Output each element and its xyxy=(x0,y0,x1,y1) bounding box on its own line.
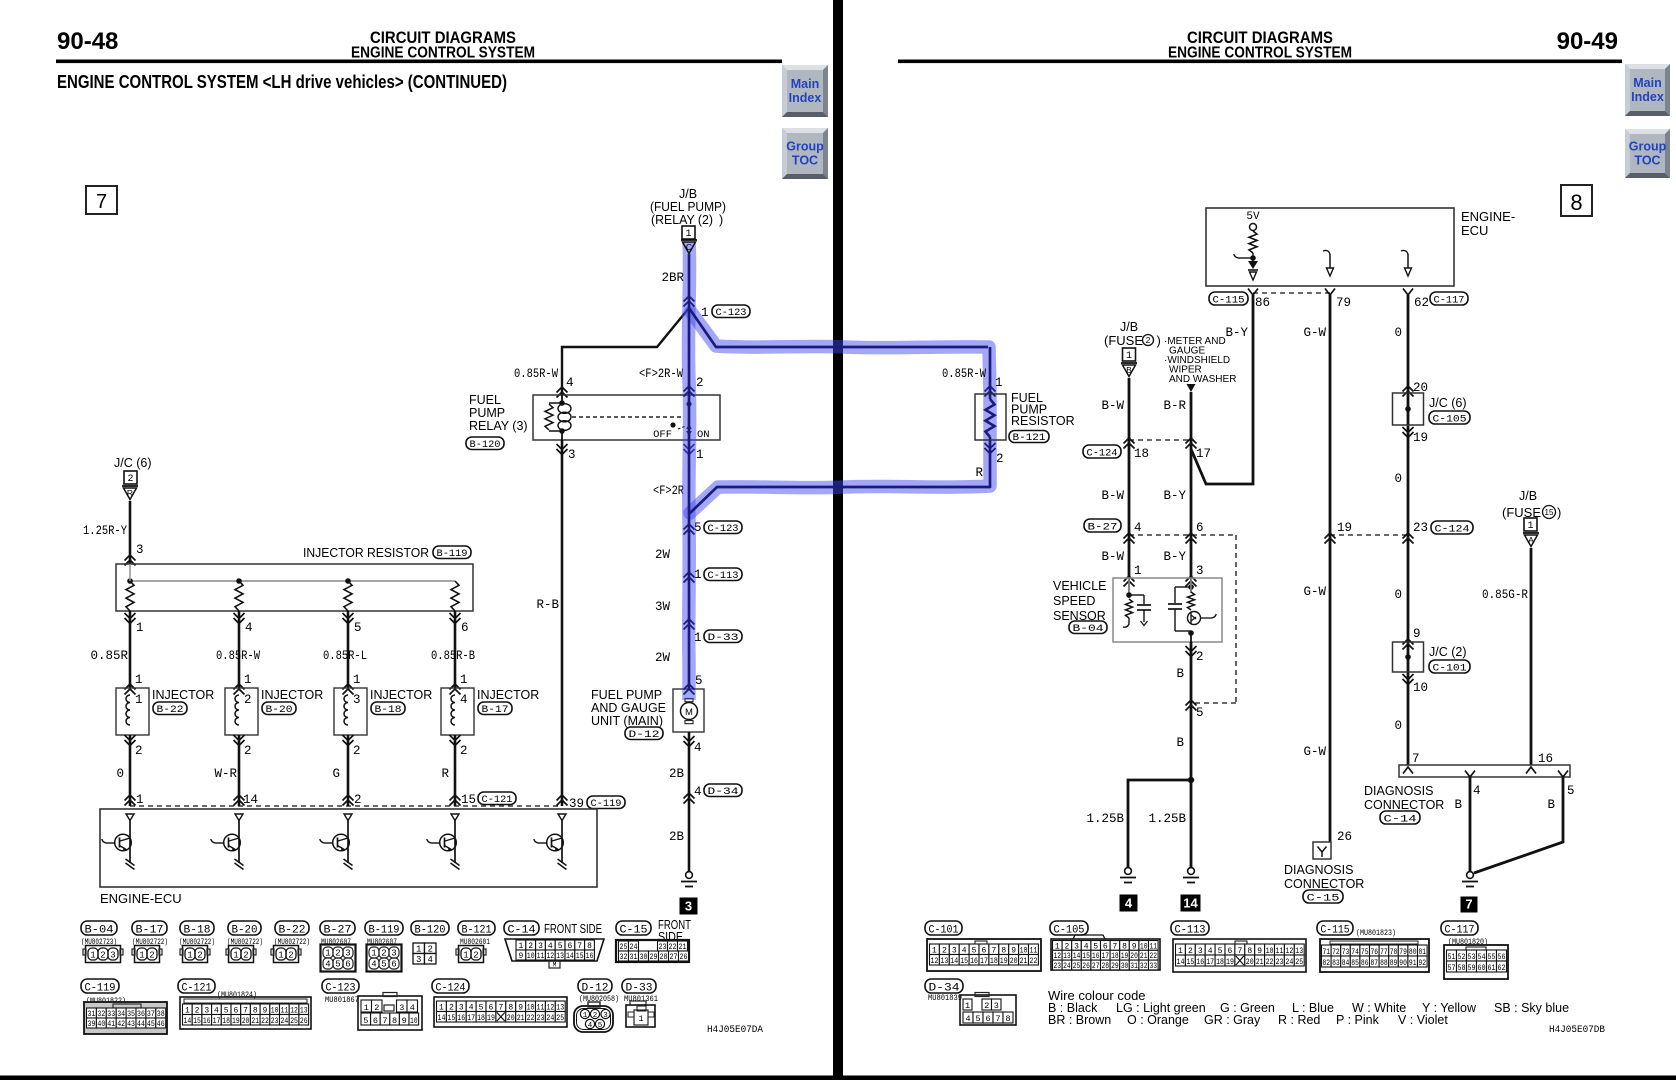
svg-text:15: 15 xyxy=(447,1014,455,1023)
svg-text:RESISTOR: RESISTOR xyxy=(1011,414,1075,428)
svg-text:0.85R-L: 0.85R-L xyxy=(323,649,367,663)
svg-text:C-124: C-124 xyxy=(1435,524,1470,536)
svg-text:1: 1 xyxy=(136,621,144,635)
svg-text:4: 4 xyxy=(566,376,574,390)
svg-text:23: 23 xyxy=(1054,962,1062,971)
svg-text:MU801839: MU801839 xyxy=(928,993,962,1003)
svg-text:B-Y: B-Y xyxy=(1225,326,1248,340)
svg-text:B-W: B-W xyxy=(1101,399,1124,413)
svg-text:(FUSE: (FUSE xyxy=(1104,333,1143,348)
svg-text:Group: Group xyxy=(786,140,824,154)
svg-text:17: 17 xyxy=(1196,447,1211,461)
svg-text:ON: ON xyxy=(697,429,710,441)
svg-text:TOC: TOC xyxy=(792,154,818,168)
svg-text:C-15: C-15 xyxy=(620,925,648,937)
svg-text:24: 24 xyxy=(546,1014,554,1023)
svg-text:1: 1 xyxy=(139,951,144,961)
svg-text:B-119: B-119 xyxy=(369,925,400,937)
svg-text:5: 5 xyxy=(354,621,362,635)
svg-text:59: 59 xyxy=(1468,964,1476,973)
svg-text:14: 14 xyxy=(1177,958,1185,967)
svg-text:18: 18 xyxy=(477,1014,485,1023)
svg-text:7: 7 xyxy=(995,1014,1000,1024)
svg-text:5: 5 xyxy=(975,1014,980,1024)
svg-text:1.25B: 1.25B xyxy=(1086,812,1124,826)
svg-text:MU801361: MU801361 xyxy=(624,994,658,1004)
svg-text:(RELAY (2): (RELAY (2) xyxy=(651,213,713,227)
svg-text:1: 1 xyxy=(638,1014,643,1024)
svg-text:J/C (6): J/C (6) xyxy=(1429,396,1467,410)
svg-text:18: 18 xyxy=(990,957,998,966)
svg-text:0.85R-W: 0.85R-W xyxy=(216,649,260,663)
svg-text:27: 27 xyxy=(1092,962,1100,971)
svg-text:C-124: C-124 xyxy=(436,983,466,995)
svg-text:25: 25 xyxy=(1295,958,1303,967)
svg-text:40: 40 xyxy=(97,1020,105,1029)
svg-text:19: 19 xyxy=(232,1017,240,1026)
svg-text:C-123: C-123 xyxy=(708,523,739,535)
svg-text:85: 85 xyxy=(1351,959,1359,968)
svg-text:24: 24 xyxy=(281,1017,289,1026)
svg-text:31: 31 xyxy=(630,953,638,962)
svg-text:2: 2 xyxy=(1146,335,1151,345)
svg-text:2: 2 xyxy=(460,744,468,758)
svg-text:60: 60 xyxy=(1478,964,1486,973)
svg-text:ECU: ECU xyxy=(1461,223,1488,238)
svg-text:2: 2 xyxy=(100,951,105,961)
svg-text:15: 15 xyxy=(576,952,584,961)
svg-text:M: M xyxy=(685,707,693,718)
svg-text:6: 6 xyxy=(1196,521,1204,535)
svg-text:39: 39 xyxy=(88,1020,96,1029)
svg-text:7: 7 xyxy=(1465,897,1472,912)
svg-text:21: 21 xyxy=(517,1014,525,1023)
svg-text:1: 1 xyxy=(463,951,468,961)
svg-text:G-W: G-W xyxy=(1303,326,1326,340)
svg-text:R : Red: R : Red xyxy=(1278,1013,1320,1027)
svg-text:B-22: B-22 xyxy=(157,704,184,716)
svg-text:1: 1 xyxy=(696,448,704,462)
svg-text:26: 26 xyxy=(300,1017,308,1026)
svg-text:0: 0 xyxy=(116,767,124,781)
svg-text:25: 25 xyxy=(1073,962,1081,971)
svg-text:4: 4 xyxy=(428,955,433,965)
svg-text:57: 57 xyxy=(1448,964,1456,973)
svg-text:2W: 2W xyxy=(655,651,671,665)
svg-text:19: 19 xyxy=(487,1014,495,1023)
svg-text:23: 23 xyxy=(1276,958,1284,967)
svg-text:22: 22 xyxy=(527,1014,535,1023)
svg-text:22: 22 xyxy=(1266,958,1274,967)
svg-text:91: 91 xyxy=(1409,959,1417,968)
svg-text:2: 2 xyxy=(593,1012,598,1020)
svg-text:2: 2 xyxy=(381,949,386,959)
svg-text:V : Violet: V : Violet xyxy=(1398,1013,1448,1027)
svg-text:Group: Group xyxy=(1629,140,1667,154)
svg-text:26: 26 xyxy=(1337,830,1352,844)
svg-text:J/B: J/B xyxy=(1120,320,1138,334)
svg-text:J/B: J/B xyxy=(679,187,697,201)
svg-text:MU801867: MU801867 xyxy=(325,995,359,1005)
svg-text:16: 16 xyxy=(1538,752,1553,766)
svg-text:32: 32 xyxy=(1140,962,1148,971)
svg-text:1: 1 xyxy=(460,673,468,687)
svg-text:B-Y: B-Y xyxy=(1163,550,1186,564)
svg-text:28: 28 xyxy=(660,953,668,962)
svg-text:17: 17 xyxy=(213,1017,221,1026)
svg-text:2: 2 xyxy=(149,951,154,961)
svg-text:62: 62 xyxy=(1414,296,1429,310)
svg-text:W-R: W-R xyxy=(214,767,237,781)
svg-text:15: 15 xyxy=(1186,958,1194,967)
svg-text:27: 27 xyxy=(670,953,678,962)
svg-text:OFF: OFF xyxy=(653,429,672,441)
svg-text:19: 19 xyxy=(1226,958,1234,967)
svg-text:C-105: C-105 xyxy=(1433,414,1467,426)
svg-text:C-113: C-113 xyxy=(1175,925,1206,937)
svg-text:C-14: C-14 xyxy=(508,925,536,937)
svg-text:P : Pink: P : Pink xyxy=(1336,1013,1380,1027)
svg-text:41: 41 xyxy=(107,1020,115,1029)
svg-text:43: 43 xyxy=(127,1020,135,1029)
svg-text:0: 0 xyxy=(1394,472,1402,486)
svg-text:1: 1 xyxy=(278,951,283,961)
svg-text:90-49: 90-49 xyxy=(1557,28,1618,55)
svg-text:1: 1 xyxy=(135,673,143,687)
svg-text:7: 7 xyxy=(96,191,107,213)
svg-text:21: 21 xyxy=(251,1017,259,1026)
svg-text:B: B xyxy=(1176,736,1184,750)
svg-text:14: 14 xyxy=(566,952,574,961)
svg-text:13: 13 xyxy=(556,952,564,961)
svg-text:23: 23 xyxy=(537,1014,545,1023)
svg-text:Index: Index xyxy=(789,91,822,105)
svg-text:B: B xyxy=(1454,798,1462,812)
svg-text:2BR: 2BR xyxy=(661,271,684,285)
svg-text:INJECTOR: INJECTOR xyxy=(370,688,432,702)
svg-text:31: 31 xyxy=(1130,962,1138,971)
svg-text:10: 10 xyxy=(527,952,535,961)
svg-text:16: 16 xyxy=(586,952,594,961)
svg-text:3: 3 xyxy=(110,951,115,961)
svg-text:29: 29 xyxy=(650,953,658,962)
svg-text:90: 90 xyxy=(1399,959,1407,968)
svg-text:R-B: R-B xyxy=(536,598,559,612)
svg-text:25: 25 xyxy=(556,1014,564,1023)
svg-text:G-W: G-W xyxy=(1303,745,1326,759)
svg-text:12: 12 xyxy=(931,957,939,966)
svg-text:15: 15 xyxy=(1545,508,1554,517)
svg-text:87: 87 xyxy=(1371,959,1379,968)
svg-text:1: 1 xyxy=(136,793,144,807)
svg-text:23: 23 xyxy=(1413,521,1428,535)
svg-text:79: 79 xyxy=(1336,296,1351,310)
svg-text:3: 3 xyxy=(136,543,144,557)
svg-text:5: 5 xyxy=(363,1016,368,1026)
svg-text:UNIT (MAIN): UNIT (MAIN) xyxy=(591,714,663,728)
svg-text:B-27: B-27 xyxy=(1088,522,1118,534)
svg-text:5: 5 xyxy=(381,960,386,970)
svg-text:0: 0 xyxy=(1394,719,1402,733)
svg-text:10: 10 xyxy=(410,1016,418,1026)
svg-text:1: 1 xyxy=(90,951,95,961)
svg-text:26: 26 xyxy=(1082,962,1090,971)
svg-text:5V: 5V xyxy=(1246,211,1260,223)
svg-text:B-R: B-R xyxy=(1163,399,1186,413)
svg-text:90-48: 90-48 xyxy=(57,28,118,55)
svg-text:42: 42 xyxy=(117,1020,125,1029)
svg-text:4: 4 xyxy=(1125,896,1133,911)
svg-text:C-124: C-124 xyxy=(1087,448,1118,460)
svg-text:12: 12 xyxy=(546,952,554,961)
svg-text:13: 13 xyxy=(940,957,948,966)
svg-text:2: 2 xyxy=(288,951,293,961)
svg-text:C-113: C-113 xyxy=(708,570,739,582)
svg-text:1: 1 xyxy=(583,1012,588,1020)
svg-text:0.85R-B: 0.85R-B xyxy=(431,649,475,663)
svg-text:3: 3 xyxy=(685,899,692,914)
svg-text:1: 1 xyxy=(965,1001,970,1011)
svg-text:3: 3 xyxy=(1196,564,1204,578)
svg-text:16: 16 xyxy=(1196,958,1204,967)
svg-text:C-115: C-115 xyxy=(1321,925,1350,937)
svg-text:4: 4 xyxy=(1473,784,1481,798)
svg-text:2: 2 xyxy=(244,693,252,707)
svg-text:C-117: C-117 xyxy=(1445,925,1475,937)
svg-text:INJECTOR RESISTOR: INJECTOR RESISTOR xyxy=(303,546,429,560)
svg-text:14: 14 xyxy=(438,1014,446,1023)
svg-text:0.85R-W: 0.85R-W xyxy=(942,367,986,381)
svg-text:<F>2R: <F>2R xyxy=(653,484,684,498)
svg-text:ENGINE CONTROL SYSTEM <LH driv: ENGINE CONTROL SYSTEM <LH drive vehicles… xyxy=(57,72,507,92)
svg-text:2: 2 xyxy=(473,951,478,961)
svg-text:1.25B: 1.25B xyxy=(1148,812,1186,826)
svg-text:1: 1 xyxy=(995,376,1003,390)
svg-text:20: 20 xyxy=(1246,958,1254,967)
svg-text:1: 1 xyxy=(364,1003,369,1013)
svg-text:45: 45 xyxy=(147,1020,155,1029)
svg-text:6: 6 xyxy=(985,1014,990,1024)
svg-text:H4J05E07DA: H4J05E07DA xyxy=(707,1024,764,1036)
svg-text:2: 2 xyxy=(374,1003,379,1013)
svg-text:C-121: C-121 xyxy=(182,983,212,995)
svg-text:C-101: C-101 xyxy=(929,925,959,937)
svg-text:ENGINE CONTROL SYSTEM: ENGINE CONTROL SYSTEM xyxy=(1168,45,1352,62)
svg-text:5: 5 xyxy=(695,674,703,688)
svg-text:Main: Main xyxy=(1633,76,1661,90)
svg-text:4: 4 xyxy=(965,1014,970,1024)
svg-text:): ) xyxy=(1157,333,1161,348)
svg-text:18: 18 xyxy=(1216,958,1224,967)
svg-text:4: 4 xyxy=(694,785,702,799)
svg-text:FRONT SIDE: FRONT SIDE xyxy=(544,922,602,936)
svg-text:19: 19 xyxy=(1337,521,1352,535)
svg-text:BR : Brown: BR : Brown xyxy=(1048,1013,1111,1027)
svg-text:<F>2R-W: <F>2R-W xyxy=(639,367,683,381)
svg-text:4: 4 xyxy=(460,693,468,707)
svg-text:B-04: B-04 xyxy=(1073,623,1104,635)
svg-text:3W: 3W xyxy=(655,600,671,614)
svg-text:3: 3 xyxy=(353,693,361,707)
svg-text:23: 23 xyxy=(271,1017,279,1026)
svg-text:B: B xyxy=(1547,798,1555,812)
svg-text:19: 19 xyxy=(1000,957,1008,966)
svg-text:2: 2 xyxy=(127,474,133,485)
svg-text:G-W: G-W xyxy=(1303,585,1326,599)
svg-text:H4J05E07DB: H4J05E07DB xyxy=(1549,1024,1605,1036)
svg-text:D-34: D-34 xyxy=(708,786,739,798)
svg-text:62: 62 xyxy=(1498,964,1506,973)
svg-text:B-120: B-120 xyxy=(470,439,501,451)
svg-text:92: 92 xyxy=(1419,959,1427,968)
svg-text:J/C (6): J/C (6) xyxy=(114,456,152,470)
svg-text:86: 86 xyxy=(1361,959,1369,968)
svg-text:3: 3 xyxy=(568,448,576,462)
svg-text:SB : Sky blue: SB : Sky blue xyxy=(1494,1001,1569,1015)
svg-text:15: 15 xyxy=(461,793,476,807)
svg-text:2: 2 xyxy=(354,793,362,807)
svg-text:7: 7 xyxy=(382,1016,387,1026)
svg-text:2: 2 xyxy=(243,951,248,961)
svg-text:86: 86 xyxy=(1255,296,1270,310)
svg-text:2: 2 xyxy=(335,949,340,959)
svg-text:46: 46 xyxy=(157,1020,165,1029)
svg-text:SPEED: SPEED xyxy=(1053,594,1095,608)
svg-text:22: 22 xyxy=(1030,957,1038,966)
svg-text:17: 17 xyxy=(980,957,988,966)
svg-text:14: 14 xyxy=(1183,896,1198,911)
svg-text:TOC: TOC xyxy=(1634,154,1660,168)
svg-text:O : Orange: O : Orange xyxy=(1127,1013,1189,1027)
svg-text:DIAGNOSIS: DIAGNOSIS xyxy=(1284,863,1353,877)
svg-text:C-15: C-15 xyxy=(1307,893,1340,905)
svg-text:18: 18 xyxy=(1134,447,1149,461)
svg-text:4: 4 xyxy=(410,1003,415,1013)
svg-text:1.25R-Y: 1.25R-Y xyxy=(83,524,127,538)
svg-text:M: M xyxy=(553,962,557,969)
svg-text:2: 2 xyxy=(244,744,252,758)
svg-text:5: 5 xyxy=(1567,784,1575,798)
svg-text:AND WASHER: AND WASHER xyxy=(1169,374,1236,385)
svg-text:89: 89 xyxy=(1390,959,1398,968)
svg-text:22: 22 xyxy=(261,1017,269,1026)
svg-text:2: 2 xyxy=(696,376,704,390)
svg-text:6: 6 xyxy=(461,621,469,635)
svg-text:6: 6 xyxy=(391,960,396,970)
svg-text:FUEL: FUEL xyxy=(469,393,501,407)
svg-text:16: 16 xyxy=(203,1017,211,1026)
svg-text:9: 9 xyxy=(518,952,523,961)
svg-text:25: 25 xyxy=(290,1017,298,1026)
svg-text:1: 1 xyxy=(187,951,192,961)
svg-text:2B: 2B xyxy=(669,767,685,781)
svg-text:B-18: B-18 xyxy=(375,704,402,716)
svg-text:C-101: C-101 xyxy=(1433,663,1467,675)
svg-text:3: 3 xyxy=(345,949,350,959)
svg-text:B-120: B-120 xyxy=(415,925,446,937)
svg-text:B: B xyxy=(1176,667,1184,681)
svg-text:16: 16 xyxy=(457,1014,465,1023)
svg-text:0: 0 xyxy=(1394,588,1402,602)
svg-text:1: 1 xyxy=(353,673,361,687)
svg-text:20: 20 xyxy=(507,1014,515,1023)
svg-text:10: 10 xyxy=(1413,681,1428,695)
svg-text:R: R xyxy=(975,466,983,480)
svg-text:J/C (2): J/C (2) xyxy=(1429,645,1467,659)
svg-text:4: 4 xyxy=(245,621,253,635)
svg-text:17: 17 xyxy=(467,1014,475,1023)
svg-text:83: 83 xyxy=(1332,959,1340,968)
svg-text:B-20: B-20 xyxy=(232,925,258,937)
svg-text:26: 26 xyxy=(680,953,688,962)
svg-text:3: 3 xyxy=(391,949,396,959)
svg-text:58: 58 xyxy=(1458,964,1466,973)
svg-text:B-18: B-18 xyxy=(184,925,211,937)
svg-text:28: 28 xyxy=(1102,962,1110,971)
svg-text:5: 5 xyxy=(598,1022,603,1030)
svg-text:15: 15 xyxy=(193,1017,201,1026)
svg-text:D-33: D-33 xyxy=(626,983,653,995)
svg-text:8: 8 xyxy=(1005,1014,1010,1024)
svg-text:INJECTOR: INJECTOR xyxy=(477,688,539,702)
svg-text:2W: 2W xyxy=(655,548,671,562)
svg-text:C-115: C-115 xyxy=(1213,295,1245,307)
svg-text:19: 19 xyxy=(1413,431,1428,445)
svg-text:6: 6 xyxy=(345,960,350,970)
svg-text:16: 16 xyxy=(970,957,978,966)
svg-text:ENGINE CONTROL SYSTEM: ENGINE CONTROL SYSTEM xyxy=(351,45,535,62)
svg-text:1: 1 xyxy=(135,693,143,707)
svg-text:20: 20 xyxy=(1010,957,1018,966)
svg-text:9: 9 xyxy=(1413,627,1421,641)
svg-text:30: 30 xyxy=(1121,962,1129,971)
svg-text:C-117: C-117 xyxy=(1434,295,1465,307)
svg-text:1: 1 xyxy=(1126,351,1132,362)
svg-text:61: 61 xyxy=(1488,964,1496,973)
svg-text:1: 1 xyxy=(1527,521,1533,532)
svg-text:4: 4 xyxy=(694,741,702,755)
svg-text:1: 1 xyxy=(233,951,238,961)
svg-text:5: 5 xyxy=(1196,706,1204,720)
svg-text:9: 9 xyxy=(402,1016,407,1026)
svg-text:GR : Gray: GR : Gray xyxy=(1204,1013,1261,1027)
svg-text:32: 32 xyxy=(620,953,628,962)
svg-text:): ) xyxy=(1557,505,1561,520)
svg-text:DIAGNOSIS: DIAGNOSIS xyxy=(1364,784,1433,798)
svg-text:C: C xyxy=(686,242,692,252)
svg-text:R: R xyxy=(441,767,449,781)
svg-text:G: G xyxy=(332,767,340,781)
svg-text:18: 18 xyxy=(222,1017,230,1026)
svg-text:24: 24 xyxy=(1285,958,1293,967)
svg-text:21: 21 xyxy=(1256,958,1264,967)
svg-text:20: 20 xyxy=(242,1017,250,1026)
svg-text:1: 1 xyxy=(1134,564,1142,578)
svg-text:15: 15 xyxy=(960,957,968,966)
svg-text:B-04: B-04 xyxy=(85,925,114,937)
svg-text:8: 8 xyxy=(392,1016,397,1026)
svg-text:82: 82 xyxy=(1323,959,1331,968)
svg-text:B-121: B-121 xyxy=(462,925,492,937)
svg-text:2: 2 xyxy=(1196,650,1204,664)
svg-text:3: 3 xyxy=(399,1003,404,1013)
svg-text:B-27: B-27 xyxy=(324,925,352,937)
svg-text:14: 14 xyxy=(950,957,958,966)
svg-text:B-W: B-W xyxy=(1101,489,1124,503)
svg-text:B-119: B-119 xyxy=(437,548,468,560)
svg-text:FUEL PUMP: FUEL PUMP xyxy=(591,688,662,702)
svg-text:3: 3 xyxy=(994,1001,999,1011)
